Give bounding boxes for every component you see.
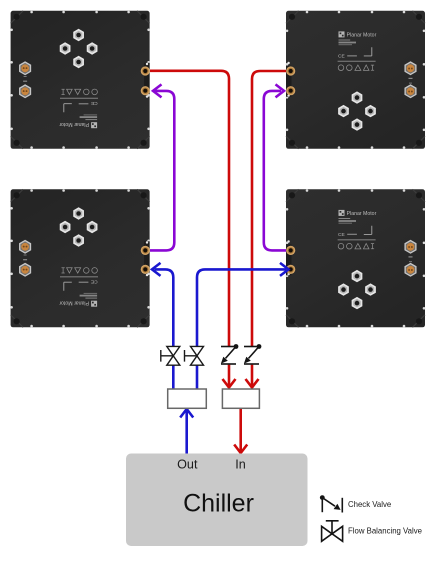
wire blue cold riser via valve V1 to BL inlet [152, 263, 173, 389]
manifold hot [222, 389, 259, 408]
port BL outlet [141, 246, 150, 255]
port TL outlet [141, 66, 150, 75]
arrowhead right [276, 84, 285, 97]
wire purple BL outlet to TL inlet [150, 84, 174, 250]
svg-text:Check Valve: Check Valve [348, 500, 391, 509]
mover panel BL (rotated) [10, 189, 150, 327]
port TR inlet [286, 86, 295, 95]
port TR outlet [286, 66, 295, 75]
chiller body [126, 454, 308, 547]
mover panel BR [286, 189, 426, 327]
arrowhead left [152, 263, 161, 276]
arrowhead left [153, 84, 162, 97]
wire segment [150, 71, 229, 346]
mover panel TL (rotated) [10, 11, 150, 149]
port BR outlet [286, 246, 295, 255]
arrowhead down [223, 379, 236, 388]
mover panel TR [286, 11, 426, 149]
svg-text:Out: Out [177, 458, 198, 472]
port BR inlet [286, 265, 295, 274]
arrowhead down [234, 445, 247, 454]
wire segment [239, 408, 242, 451]
wire segment [150, 91, 174, 251]
wire red hot manifold to chiller In [234, 408, 247, 453]
flow balancing valve V2 [185, 346, 204, 365]
wire segment [228, 365, 231, 386]
arrowhead up [180, 409, 193, 418]
wire segment [264, 91, 286, 251]
arrowhead right [280, 263, 289, 276]
wire segment [185, 411, 188, 454]
wire segment [251, 365, 254, 386]
check valve CV2 [244, 344, 262, 364]
svg-text:Flow Balancing Valve: Flow Balancing Valve [348, 526, 422, 535]
wire segment [197, 269, 286, 346]
wire purple BR outlet to TR inlet [264, 84, 286, 250]
manifold cold [168, 389, 207, 408]
wire red hot TL outlet to check valve CV1 [150, 71, 236, 388]
wire segment [252, 71, 286, 346]
port BL inlet [141, 265, 150, 274]
port TL inlet [141, 86, 150, 95]
legend symbol flow balancing valve [322, 521, 343, 542]
wire segment [155, 269, 174, 346]
wire blue cold riser via valve V2 to BR inlet [197, 263, 289, 389]
wire blue chiller Out to cold manifold [180, 409, 193, 454]
legend symbol check valve [320, 495, 342, 512]
svg-text:Chiller: Chiller [183, 490, 254, 518]
wire segment [172, 366, 175, 390]
arrowhead down [246, 379, 259, 388]
check valve CV1 [221, 344, 239, 364]
wire red hot TR outlet to check valve CV2 [246, 71, 287, 388]
flow balancing valve V1 [161, 346, 180, 365]
wire segment [196, 366, 199, 390]
svg-text:In: In [235, 458, 246, 472]
